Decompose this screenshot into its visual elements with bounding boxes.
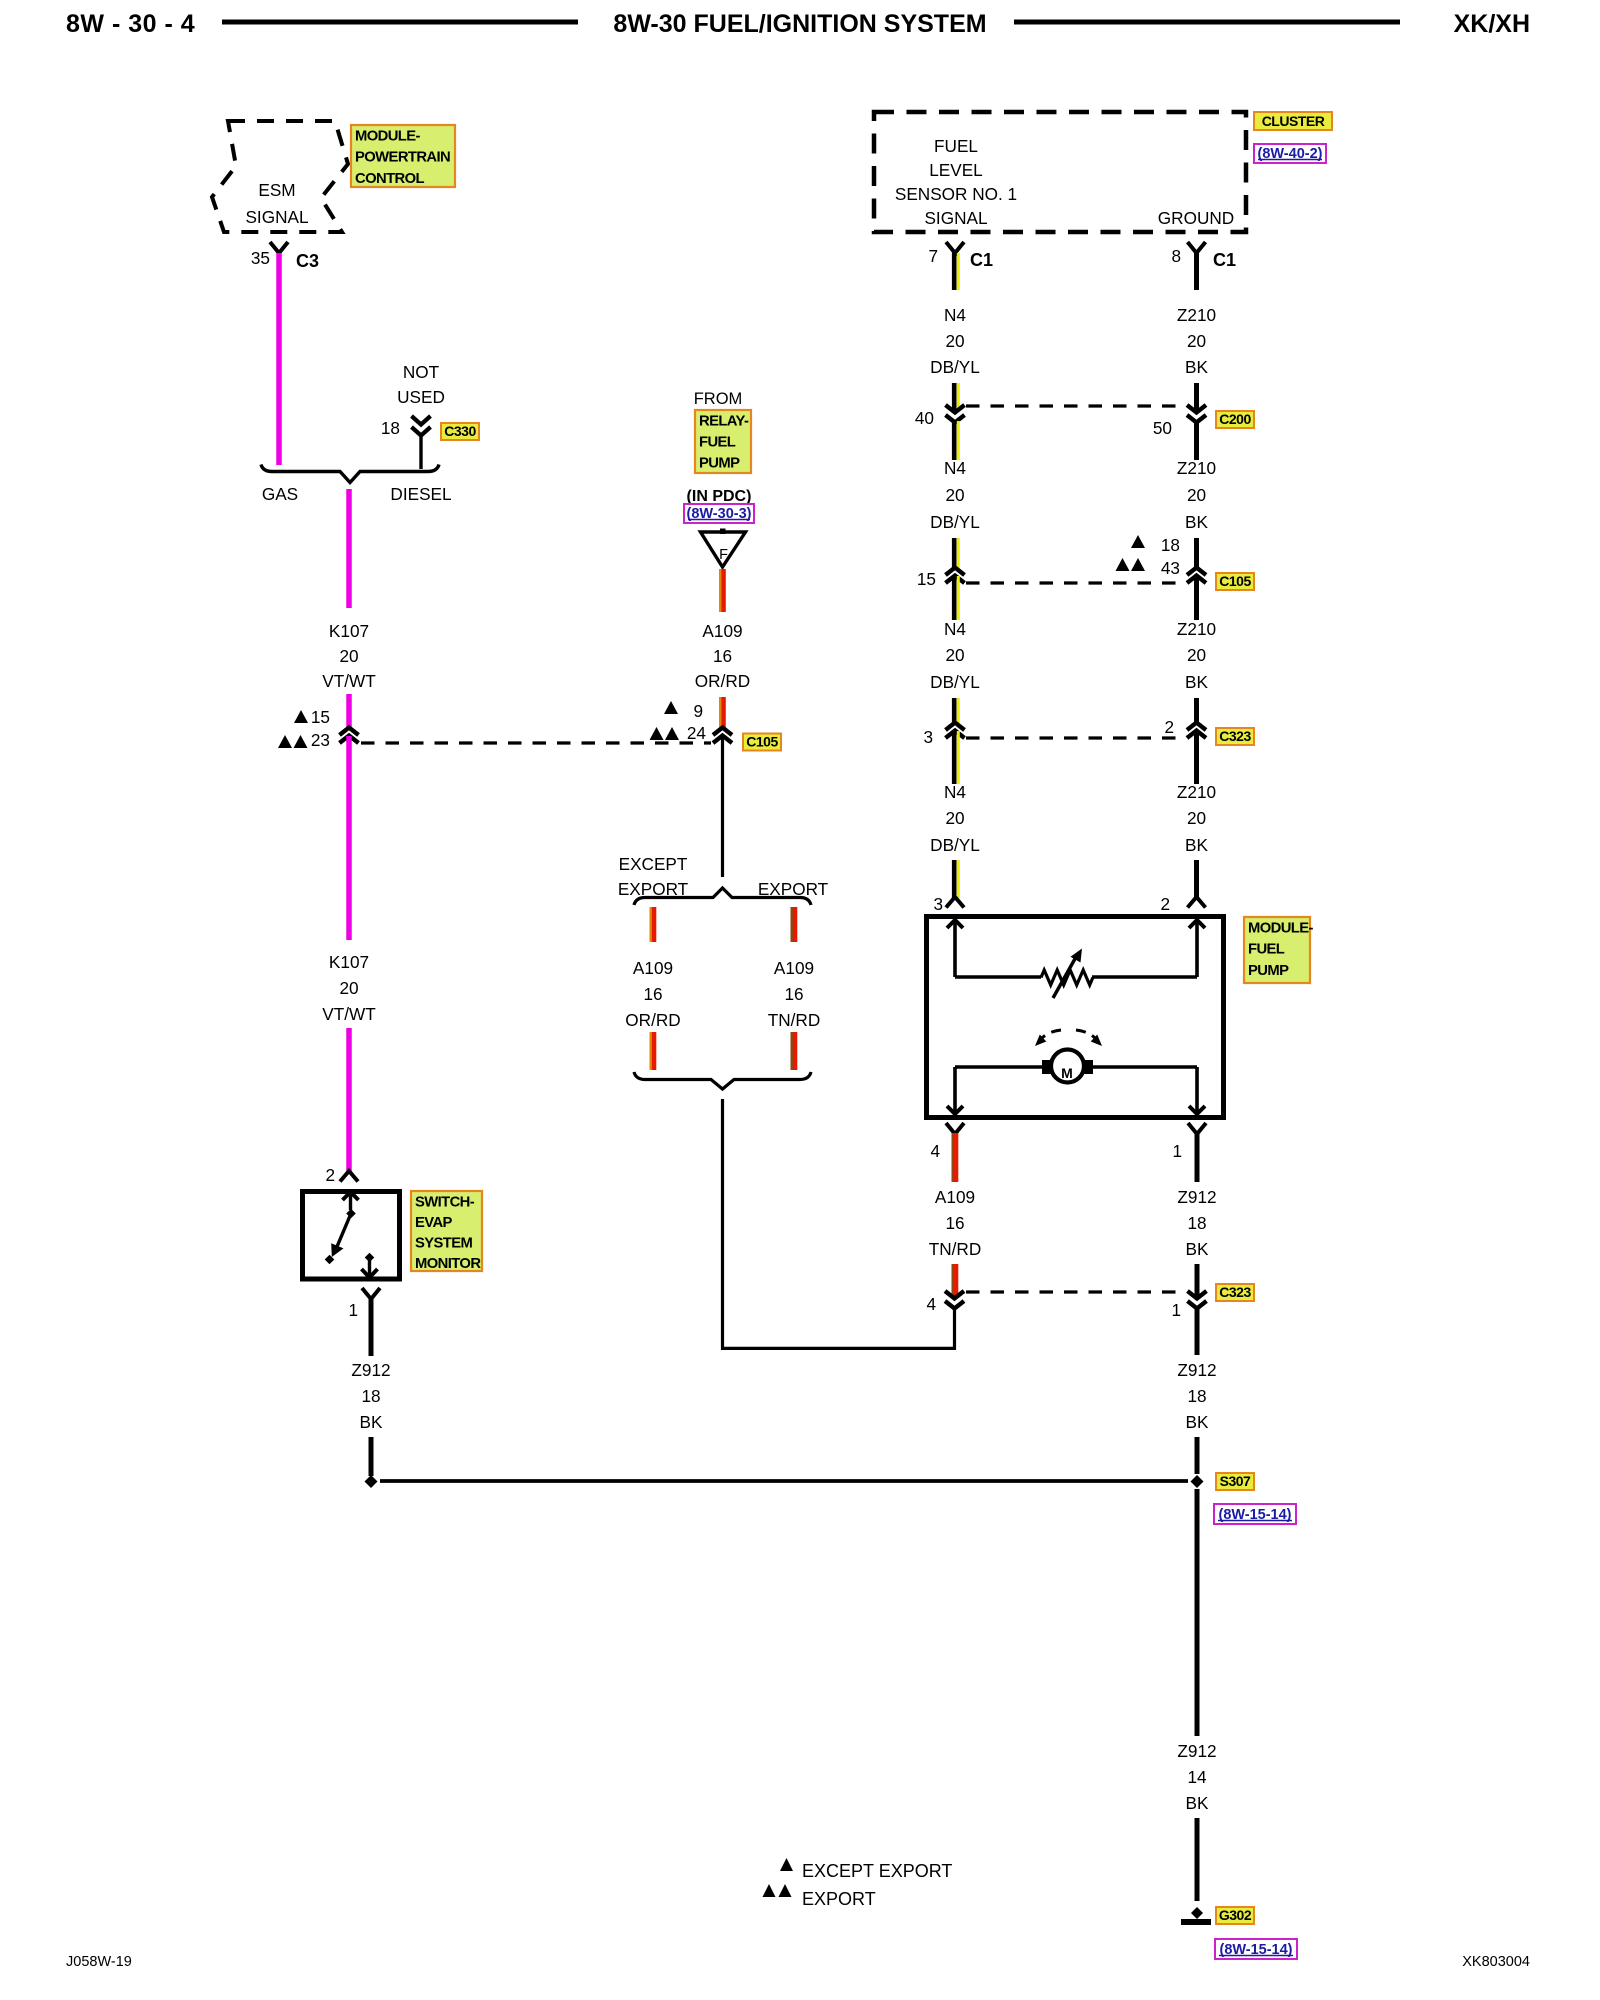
svg-text:2: 2: [1160, 894, 1170, 914]
svg-text:20: 20: [1187, 331, 1206, 351]
svg-text:8: 8: [1171, 246, 1181, 266]
svg-text:20: 20: [1187, 808, 1206, 828]
svg-text:15: 15: [311, 707, 330, 727]
svg-text:A109: A109: [774, 958, 814, 978]
svg-text:NOT: NOT: [403, 362, 440, 382]
svg-text:RELAY-: RELAY-: [699, 413, 749, 429]
svg-text:OR/RD: OR/RD: [695, 671, 750, 691]
svg-text:C323: C323: [1219, 728, 1251, 744]
svg-text:TN/RD: TN/RD: [929, 1239, 982, 1259]
svg-text:18: 18: [361, 1386, 380, 1406]
svg-text:MONITOR: MONITOR: [415, 1256, 481, 1272]
svg-text:20: 20: [339, 646, 358, 666]
svg-text:DB/YL: DB/YL: [930, 672, 980, 692]
svg-text:CLUSTER: CLUSTER: [1262, 113, 1325, 129]
svg-text:A109: A109: [935, 1187, 975, 1207]
svg-text:7: 7: [928, 246, 938, 266]
svg-text:20: 20: [1187, 485, 1206, 505]
svg-text:EXCEPT EXPORT: EXCEPT EXPORT: [802, 1861, 952, 1881]
svg-text:BK: BK: [1186, 1793, 1209, 1813]
svg-text:N4: N4: [944, 782, 966, 802]
svg-text:20: 20: [339, 978, 358, 998]
svg-text:MODULE-: MODULE-: [355, 128, 421, 144]
svg-text:24: 24: [687, 723, 707, 743]
svg-text:20: 20: [1187, 645, 1206, 665]
svg-text:PUMP: PUMP: [699, 455, 740, 471]
svg-text:S307: S307: [1220, 1473, 1251, 1489]
svg-text:N4: N4: [944, 458, 966, 478]
svg-text:XK/XH: XK/XH: [1454, 10, 1530, 38]
svg-text:3: 3: [923, 727, 933, 747]
svg-text:ESM: ESM: [258, 180, 295, 200]
svg-text:C3: C3: [296, 251, 319, 271]
svg-text:C323: C323: [1219, 1284, 1251, 1300]
svg-text:G302: G302: [1219, 1907, 1252, 1923]
svg-text:C105: C105: [746, 734, 778, 750]
svg-text:FUEL: FUEL: [1248, 942, 1285, 958]
svg-text:XK803004: XK803004: [1462, 1954, 1530, 1970]
svg-text:50: 50: [1153, 418, 1172, 438]
svg-text:DB/YL: DB/YL: [930, 357, 980, 377]
svg-text:20: 20: [945, 808, 964, 828]
svg-text:40: 40: [915, 408, 934, 428]
svg-text:BK: BK: [1186, 1239, 1209, 1259]
svg-text:BK: BK: [1185, 835, 1208, 855]
svg-text:SIGNAL: SIGNAL: [245, 207, 308, 227]
svg-text:PUMP: PUMP: [1248, 963, 1289, 979]
svg-text:SENSOR NO. 1: SENSOR NO. 1: [895, 184, 1017, 204]
svg-text:VT/WT: VT/WT: [322, 671, 376, 691]
svg-text:C200: C200: [1219, 411, 1251, 427]
svg-text:OR/RD: OR/RD: [625, 1010, 680, 1030]
svg-text:8W-30 FUEL/IGNITION SYSTEM: 8W-30 FUEL/IGNITION SYSTEM: [613, 10, 986, 38]
svg-text:BK: BK: [1185, 357, 1208, 377]
svg-text:EXPORT: EXPORT: [802, 1889, 876, 1909]
svg-text:(IN PDC): (IN PDC): [687, 488, 752, 505]
svg-text:16: 16: [945, 1213, 964, 1233]
svg-text:18: 18: [381, 418, 400, 438]
svg-text:1: 1: [1171, 1300, 1181, 1320]
svg-text:Z912: Z912: [351, 1360, 390, 1380]
svg-text:C330: C330: [444, 423, 476, 439]
svg-text:TN/RD: TN/RD: [768, 1010, 821, 1030]
svg-text:K107: K107: [329, 952, 369, 972]
svg-text:16: 16: [784, 984, 803, 1004]
svg-text:A109: A109: [633, 958, 673, 978]
svg-text:9: 9: [693, 701, 703, 721]
svg-text:8W - 30 - 4: 8W - 30 - 4: [66, 10, 195, 38]
svg-text:EXCEPT: EXCEPT: [619, 854, 688, 874]
svg-text:A109: A109: [702, 621, 742, 641]
svg-text:SIGNAL: SIGNAL: [924, 208, 987, 228]
svg-text:Z912: Z912: [1177, 1360, 1216, 1380]
svg-text:2: 2: [1164, 717, 1174, 737]
svg-text:18: 18: [1187, 1386, 1206, 1406]
svg-text:1: 1: [348, 1300, 358, 1320]
svg-text:18: 18: [1187, 1213, 1206, 1233]
svg-text:4: 4: [926, 1294, 936, 1314]
svg-text:DB/YL: DB/YL: [930, 512, 980, 532]
svg-text:SWITCH-: SWITCH-: [415, 1194, 475, 1210]
svg-text:16: 16: [643, 984, 662, 1004]
svg-text:Z210: Z210: [1177, 782, 1216, 802]
svg-text:K107: K107: [329, 621, 369, 641]
svg-text:FUEL: FUEL: [934, 136, 978, 156]
svg-text:20: 20: [945, 645, 964, 665]
svg-text:EVAP: EVAP: [415, 1215, 453, 1231]
svg-text:C1: C1: [1213, 250, 1236, 270]
svg-text:FROM: FROM: [694, 390, 743, 408]
svg-text:20: 20: [945, 331, 964, 351]
svg-text:1: 1: [1172, 1141, 1182, 1161]
svg-text:CONTROL: CONTROL: [355, 171, 425, 187]
svg-text:Z210: Z210: [1177, 305, 1216, 325]
svg-text:43: 43: [1161, 558, 1180, 578]
svg-text:N4: N4: [944, 305, 966, 325]
svg-text:15: 15: [917, 569, 936, 589]
svg-text:BK: BK: [1186, 1412, 1209, 1432]
svg-text:14: 14: [1187, 1767, 1207, 1787]
svg-text:23: 23: [311, 730, 330, 750]
svg-text:18: 18: [1161, 535, 1180, 555]
svg-text:16: 16: [713, 646, 732, 666]
svg-text:GROUND: GROUND: [1158, 208, 1234, 228]
svg-text:BK: BK: [1185, 512, 1208, 532]
svg-text:4: 4: [930, 1141, 940, 1161]
svg-text:Z912: Z912: [1177, 1187, 1216, 1207]
svg-text:BK: BK: [360, 1412, 383, 1432]
svg-text:N4: N4: [944, 619, 966, 639]
svg-text:Z210: Z210: [1177, 619, 1216, 639]
svg-text:DIESEL: DIESEL: [390, 484, 451, 504]
svg-text:MODULE-: MODULE-: [1248, 920, 1314, 936]
svg-text:VT/WT: VT/WT: [322, 1004, 376, 1024]
svg-text:35: 35: [251, 248, 270, 268]
svg-text:DB/YL: DB/YL: [930, 835, 980, 855]
svg-text:POWERTRAIN: POWERTRAIN: [355, 150, 450, 166]
svg-text:Z912: Z912: [1177, 1741, 1216, 1761]
svg-text:20: 20: [945, 485, 964, 505]
svg-text:3: 3: [933, 894, 943, 914]
svg-text:F: F: [719, 547, 728, 563]
svg-text:C105: C105: [1219, 573, 1251, 589]
svg-text:LEVEL: LEVEL: [929, 160, 983, 180]
svg-text:M: M: [1061, 1065, 1073, 1081]
svg-text:BK: BK: [1185, 672, 1208, 692]
svg-text:GAS: GAS: [262, 484, 298, 504]
svg-text:J058W-19: J058W-19: [66, 1954, 132, 1970]
svg-text:FUEL: FUEL: [699, 434, 736, 450]
svg-text:USED: USED: [397, 387, 445, 407]
svg-text:2: 2: [325, 1165, 335, 1185]
svg-text:C1: C1: [970, 250, 993, 270]
svg-text:SYSTEM: SYSTEM: [415, 1236, 473, 1252]
svg-text:Z210: Z210: [1177, 458, 1216, 478]
